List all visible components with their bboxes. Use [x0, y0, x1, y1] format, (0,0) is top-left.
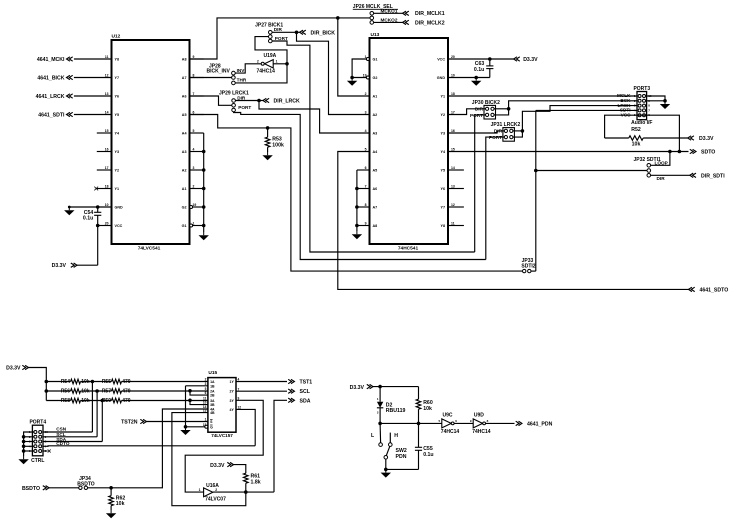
svg-text:16: 16 — [451, 129, 455, 133]
svg-text:Y8: Y8 — [115, 57, 120, 61]
svg-text:G: G — [210, 425, 213, 429]
svg-text:G2: G2 — [182, 205, 187, 209]
wire JP31 PORT leg — [486, 137, 504, 259]
svg-text:74HC14: 74HC14 — [472, 429, 491, 435]
svg-text:Y8: Y8 — [440, 224, 445, 228]
svg-text:A6: A6 — [182, 94, 187, 98]
svg-text:4641_SDTI: 4641_SDTI — [38, 112, 65, 118]
wire U15 3B tie — [188, 399, 208, 405]
wire DIR_LRCK to U13 A3 — [259, 101, 370, 134]
svg-text:Y7: Y7 — [440, 205, 445, 209]
svg-text:10k: 10k — [81, 389, 90, 395]
wire SDA to U16A output — [274, 400, 287, 492]
wire PORT4 CSN — [43, 427, 92, 432]
svg-text:TST1: TST1 — [300, 380, 313, 386]
svg-text:13: 13 — [105, 92, 109, 96]
svg-text:R55: R55 — [102, 379, 111, 385]
IC U13 74HC541 buffer — [363, 32, 464, 252]
svg-text:Y1: Y1 — [115, 187, 120, 191]
svg-text:BSDTO: BSDTO — [22, 486, 40, 492]
svg-text:2: 2 — [257, 59, 259, 63]
wire JP32 LOOP — [651, 152, 670, 166]
svg-text:1Y: 1Y — [230, 380, 235, 384]
svg-text:DIR: DIR — [237, 95, 246, 100]
port 4641_SDTI — [38, 112, 111, 118]
svg-text:U13: U13 — [371, 32, 380, 38]
buffer U16A 74LVC07 — [199, 483, 226, 503]
svg-text:3: 3 — [193, 166, 195, 170]
svg-text:10: 10 — [451, 73, 455, 77]
svg-text:74LVC541: 74LVC541 — [138, 246, 161, 252]
port 4641_MCKI — [37, 57, 112, 63]
jumper JP26 MCLK_SEL — [353, 4, 398, 24]
svg-text:74HC541: 74HC541 — [398, 246, 419, 252]
svg-text:10k: 10k — [423, 406, 432, 412]
svg-text:0.1u: 0.1u — [423, 452, 433, 458]
wire U15 2Y — [236, 390, 287, 392]
svg-text:H: H — [394, 433, 398, 439]
wire JP26 MCKO1 — [374, 12, 403, 14]
wire CSN net — [91, 380, 95, 432]
svg-text:Y1: Y1 — [440, 94, 445, 98]
svg-text:D3.3V: D3.3V — [523, 57, 538, 63]
svg-text:74LVC07: 74LVC07 — [205, 497, 226, 503]
wire 4641_SDTO net — [338, 152, 689, 290]
port D3.3V at R61 — [210, 462, 233, 468]
svg-text:11: 11 — [451, 221, 455, 225]
svg-text:4641_PDN: 4641_PDN — [527, 421, 553, 427]
wire U12 A5 / SDTI loop net — [190, 115, 523, 272]
port D3.3V at U13 VCC — [514, 57, 539, 63]
svg-text:5: 5 — [193, 129, 195, 133]
wire JP30 PORT leg — [475, 115, 486, 252]
wire U12 VCC — [77, 224, 112, 266]
wire PORT3 ground pins — [646, 96, 667, 103]
svg-text:PDN: PDN — [396, 454, 407, 460]
wire D3.3V pullup feed — [29, 368, 49, 401]
capacitor C55 0.1u — [386, 423, 434, 469]
wire BSDTO to U15 4A — [88, 409, 208, 490]
svg-text:12: 12 — [451, 203, 455, 207]
wire R61 feed — [234, 465, 246, 474]
svg-text:7: 7 — [193, 92, 195, 96]
port DIR_LRCK — [263, 98, 300, 104]
svg-text:DIR: DIR — [657, 176, 666, 181]
header PORT3 Audio I/F — [617, 86, 653, 126]
port 4641_LRCK — [36, 94, 112, 100]
svg-text:16: 16 — [105, 147, 109, 151]
svg-text:19: 19 — [193, 203, 197, 207]
jumper JP34 BSDTO — [77, 476, 95, 489]
resistor R57 470 — [102, 389, 208, 395]
ground PORT3 — [660, 101, 670, 109]
svg-text:3B: 3B — [210, 403, 215, 407]
svg-text:Y6: Y6 — [440, 187, 445, 191]
wire JP27 PORT loopback — [272, 41, 475, 252]
inverter U9C 74HC14 — [439, 412, 460, 435]
wire U15 4B to U16A output loop — [172, 413, 246, 506]
svg-text:GND: GND — [437, 76, 446, 80]
svg-text:12: 12 — [105, 73, 109, 77]
svg-text:G1: G1 — [182, 224, 187, 228]
port DIR_BICK — [300, 30, 336, 36]
svg-text:Y2: Y2 — [440, 113, 445, 117]
svg-text:U9C: U9C — [443, 412, 453, 418]
svg-text:18: 18 — [105, 184, 109, 188]
ground U13 enable — [347, 78, 357, 86]
wire U9D output — [486, 422, 515, 424]
IC U12 74LVC541 buffer — [94, 34, 203, 252]
svg-text:9: 9 — [365, 221, 367, 225]
svg-text:1: 1 — [199, 488, 201, 492]
svg-text:15: 15 — [105, 129, 109, 133]
svg-text:74HC14: 74HC14 — [441, 429, 460, 435]
svg-text:TST2N: TST2N — [121, 420, 138, 426]
jumper JP29 LRCK1 — [219, 90, 251, 111]
svg-text:RBU119: RBU119 — [386, 408, 406, 414]
wire U13 Y2 to JP30 — [448, 109, 485, 115]
svg-text:4B: 4B — [210, 411, 215, 415]
svg-text:A5: A5 — [182, 113, 187, 117]
wire PORT4 pin6 nc — [43, 450, 51, 453]
resistor R54 10k — [46, 379, 111, 385]
ground R62 — [106, 510, 116, 518]
wire U13 A5-A8 ground bus — [355, 170, 369, 231]
resistor R60 10k — [416, 387, 433, 424]
resistor R61 1.8k — [244, 473, 261, 492]
resistor R62 10k — [109, 488, 126, 510]
svg-text:4: 4 — [193, 147, 195, 151]
wire DIR_BICK to U13 A2 — [297, 32, 370, 114]
capacitor C54 0.1u — [83, 207, 101, 226]
svg-text:D3.3V: D3.3V — [6, 366, 21, 372]
ground PORT4 — [18, 456, 28, 464]
svg-text:U19A: U19A — [264, 53, 277, 59]
wire U9C to U9D — [454, 422, 473, 424]
wire PORT4 ground side — [22, 432, 34, 456]
wire U15 3Y to U16A input — [185, 400, 263, 492]
svg-text:6: 6 — [365, 166, 367, 170]
svg-text:4: 4 — [365, 129, 367, 133]
ground U13 A-bus — [352, 231, 362, 239]
port DIR_MCLK1 — [403, 11, 445, 17]
jumper JP33 SDTI2 — [521, 258, 535, 273]
jumper block JP31 LRCK2 — [489, 122, 521, 141]
wire U12 A6 to JP29 common — [190, 96, 232, 105]
svg-text:10k: 10k — [81, 398, 90, 404]
jumper JP28 BICK_INV — [207, 63, 247, 84]
wire U19A input node — [235, 62, 289, 83]
wire BSDTO lead — [49, 487, 79, 489]
svg-text:470: 470 — [122, 389, 131, 395]
svg-text:5: 5 — [365, 147, 367, 151]
wire PDN supply — [373, 385, 419, 389]
svg-text:8: 8 — [365, 203, 367, 207]
svg-text:Audio I/F: Audio I/F — [631, 120, 652, 126]
wire JP29 DIR — [236, 99, 263, 103]
resistor R53 100k — [265, 128, 284, 152]
ground U13 GND pin — [471, 78, 481, 86]
resistor R52 10k — [605, 127, 688, 147]
svg-text:Y3: Y3 — [115, 150, 120, 154]
port DIR_SDTI — [690, 173, 725, 179]
svg-text:DIR: DIR — [274, 27, 283, 32]
svg-text:A3: A3 — [373, 131, 378, 135]
wire PDN node — [378, 422, 441, 426]
resistor R56 10k — [46, 389, 111, 395]
svg-text:DIR_SDTI: DIR_SDTI — [701, 173, 725, 179]
svg-text:G2: G2 — [373, 76, 378, 80]
svg-text:0.1u: 0.1u — [474, 67, 484, 73]
svg-text:20: 20 — [451, 55, 455, 59]
svg-text:Y3: Y3 — [440, 131, 445, 135]
svg-text:7: 7 — [365, 184, 367, 188]
svg-text:3Y: 3Y — [230, 399, 235, 403]
port TST2N — [121, 419, 146, 425]
wire U15 1B and G to ground — [184, 386, 208, 429]
svg-text:BICK_INV: BICK_INV — [207, 69, 231, 75]
svg-text:2B: 2B — [210, 394, 215, 398]
wire SDTO net — [448, 150, 689, 154]
svg-text:D3.3V: D3.3V — [52, 263, 67, 269]
svg-text:DIR_LRCK: DIR_LRCK — [274, 99, 300, 105]
svg-text:DIR_BICK: DIR_BICK — [311, 30, 336, 36]
svg-text:10k: 10k — [81, 379, 90, 385]
port TST1 — [288, 379, 312, 385]
svg-text:R58: R58 — [61, 398, 70, 404]
svg-text:A3: A3 — [182, 150, 187, 154]
wire PORT4 SCL — [43, 432, 97, 437]
svg-text:VCC: VCC — [437, 57, 445, 61]
wire JP28 common to U12 A7 — [190, 77, 232, 79]
svg-text:11: 11 — [105, 55, 109, 59]
diode D2 RBU119 — [377, 387, 406, 424]
svg-text:SDTI2: SDTI2 — [521, 264, 535, 270]
ground R53 — [262, 152, 272, 160]
svg-text:10: 10 — [105, 203, 109, 207]
svg-text:R54: R54 — [61, 379, 70, 385]
svg-text:D3.3V: D3.3V — [210, 463, 225, 469]
svg-text:A7: A7 — [373, 205, 378, 209]
port BSDTO — [22, 486, 49, 492]
capacitor C63 0.1u — [474, 59, 493, 78]
svg-text:0.1u: 0.1u — [83, 215, 93, 221]
port SDTO — [690, 149, 716, 155]
svg-text:19: 19 — [363, 73, 367, 77]
svg-text:D3.3V: D3.3V — [350, 385, 365, 391]
ground U15 enable — [180, 427, 190, 435]
wire MCLK select net — [190, 16, 371, 96]
svg-text:13: 13 — [451, 184, 455, 188]
svg-text:10k: 10k — [632, 141, 641, 147]
wire U13 Y1 to PORT3 MCLK — [448, 95, 637, 97]
svg-text:VCC: VCC — [115, 224, 123, 228]
svg-text:74LVC157: 74LVC157 — [211, 433, 233, 438]
wire JP30 to PORT3 BCK — [494, 101, 637, 115]
svg-text:A5: A5 — [373, 168, 378, 172]
svg-text:470: 470 — [122, 398, 131, 404]
wire PORT3 SDTI net — [534, 110, 637, 271]
resistor R55 470 — [102, 379, 208, 385]
svg-text:4Y: 4Y — [230, 408, 235, 412]
header PORT4 CTRL — [29, 420, 48, 464]
wire U13 Y3 to JP31 — [448, 131, 504, 133]
wire SCL net — [95, 389, 99, 437]
svg-text:14: 14 — [451, 166, 455, 170]
port SCL — [288, 389, 311, 395]
port 4641_SDTO — [689, 287, 729, 293]
port D3.3V pullups — [6, 365, 28, 371]
port 4641_PDN — [516, 421, 553, 427]
svg-text:Y2: Y2 — [115, 168, 120, 172]
wire U13 G1 G2 enable — [350, 59, 366, 79]
wire JP29 PORT loopback — [234, 112, 486, 260]
svg-text:10k: 10k — [116, 501, 125, 507]
svg-text:SDTO: SDTO — [701, 150, 715, 156]
svg-text:PORT: PORT — [238, 105, 251, 110]
wire U13 VCC — [448, 57, 514, 61]
svg-text:R57: R57 — [102, 389, 111, 395]
switch SW2 PDN — [371, 423, 407, 471]
svg-text:THR: THR — [237, 78, 247, 83]
wire U15 4Y leg — [236, 409, 255, 445]
svg-text:A6: A6 — [373, 187, 378, 191]
svg-text:DIR_MCLK1: DIR_MCLK1 — [415, 11, 445, 17]
wire U16A output — [213, 490, 274, 494]
svg-text:4641_LRCK: 4641_LRCK — [36, 94, 65, 100]
svg-text:A1: A1 — [182, 187, 187, 191]
wire JP27 common to U19A — [255, 37, 287, 64]
svg-text:1: 1 — [276, 59, 278, 63]
svg-text:17: 17 — [105, 166, 109, 170]
ground U12 GND pin — [64, 207, 74, 215]
port SDA — [288, 398, 311, 404]
svg-text:17: 17 — [451, 110, 455, 114]
svg-text:DIR_MCLK2: DIR_MCLK2 — [415, 20, 445, 26]
svg-text:470: 470 — [122, 379, 131, 385]
wire PORT4 CDTO net — [43, 441, 255, 446]
jumper JP32 SDTI1 — [634, 157, 668, 181]
wire JP26 MCKO2 — [374, 21, 403, 23]
wire JP33 to SDTI net — [531, 270, 536, 272]
wire JP32 common — [536, 170, 647, 172]
svg-text:A8: A8 — [373, 224, 378, 228]
svg-text:3: 3 — [365, 110, 367, 114]
svg-text:4641_MCKI: 4641_MCKI — [37, 57, 65, 63]
svg-text:A2: A2 — [373, 113, 378, 117]
inverter U9D 74HC14 — [470, 412, 491, 435]
svg-text:R56: R56 — [61, 389, 70, 395]
svg-text:U9D: U9D — [474, 412, 484, 418]
wire JP27 DIR — [272, 31, 300, 35]
svg-text:2: 2 — [193, 184, 195, 188]
svg-text:U16A: U16A — [206, 483, 219, 489]
svg-text:Y5: Y5 — [115, 113, 120, 117]
svg-text:4641_BICK: 4641_BICK — [37, 75, 64, 81]
wire U19A output to JP28 INV — [235, 64, 261, 73]
svg-text:U15: U15 — [208, 370, 217, 376]
wire U15 1Y — [236, 381, 287, 383]
wire JP31 to PORT3 LRCK — [513, 106, 637, 138]
svg-text:SCL: SCL — [300, 389, 311, 395]
svg-text:14: 14 — [105, 110, 109, 114]
svg-text:2: 2 — [365, 92, 367, 96]
jumper block JP30 BICK2 — [470, 100, 500, 119]
svg-text:G1: G1 — [373, 57, 378, 61]
svg-text:6: 6 — [193, 110, 195, 114]
svg-text:A8: A8 — [182, 57, 187, 61]
svg-text:A7: A7 — [182, 76, 187, 80]
wire U13 GND pin — [448, 76, 490, 80]
port 4641_BICK — [37, 75, 111, 81]
svg-text:CTRL: CTRL — [31, 458, 44, 464]
wire JP32 DIR — [651, 174, 690, 176]
svg-text:A1: A1 — [373, 94, 378, 98]
svg-text:INV: INV — [237, 68, 246, 73]
svg-text:1B: 1B — [210, 384, 215, 388]
svg-text:A2: A2 — [182, 168, 187, 172]
svg-text:74HC14: 74HC14 — [257, 69, 276, 75]
port DIR_MCLK2 — [403, 20, 445, 26]
ground SW2 C55 — [381, 469, 391, 477]
svg-text:15: 15 — [451, 147, 455, 151]
svg-text:GND: GND — [115, 205, 124, 209]
wire U12 A-input ground bus — [202, 133, 206, 232]
svg-text:1.8k: 1.8k — [251, 479, 261, 485]
port D3.3V to U12 VCC — [52, 263, 77, 269]
svg-text:U12: U12 — [112, 34, 121, 40]
resistor R59 470 — [102, 398, 208, 404]
port D3.3V PDN — [350, 384, 373, 390]
svg-text:CDTO: CDTO — [56, 441, 70, 446]
jumper JP27 BICK1 — [255, 22, 288, 43]
IC U15 74LVC157 mux — [203, 370, 241, 438]
wire R52 pullup net — [605, 115, 680, 151]
ground U12 input bus — [199, 232, 209, 240]
svg-text:4641_SDTO: 4641_SDTO — [700, 287, 729, 293]
svg-text:R52: R52 — [631, 127, 641, 133]
svg-text:Y5: Y5 — [440, 168, 445, 172]
svg-text:18: 18 — [451, 92, 455, 96]
wire PORT4 SDA — [43, 437, 102, 442]
svg-text:SDA: SDA — [300, 398, 311, 404]
svg-text:Y6: Y6 — [115, 94, 120, 98]
svg-text:9: 9 — [193, 55, 195, 59]
svg-text:Y7: Y7 — [115, 76, 120, 80]
wire SDA net — [101, 399, 105, 442]
svg-text:20: 20 — [105, 221, 109, 225]
svg-text:D3.3V: D3.3V — [699, 136, 714, 142]
port D3.3V at R52 — [688, 136, 714, 142]
svg-text:2Y: 2Y — [230, 390, 235, 394]
resistor R58 10k — [46, 398, 111, 404]
wire TST2N to U15 S — [147, 421, 208, 423]
svg-text:8: 8 — [193, 73, 195, 77]
wire U15 2B tie — [188, 389, 208, 395]
inverter U19A 74HC14 — [257, 53, 278, 74]
wire U12 GND pin — [68, 205, 112, 209]
svg-text:100k: 100k — [272, 143, 284, 149]
